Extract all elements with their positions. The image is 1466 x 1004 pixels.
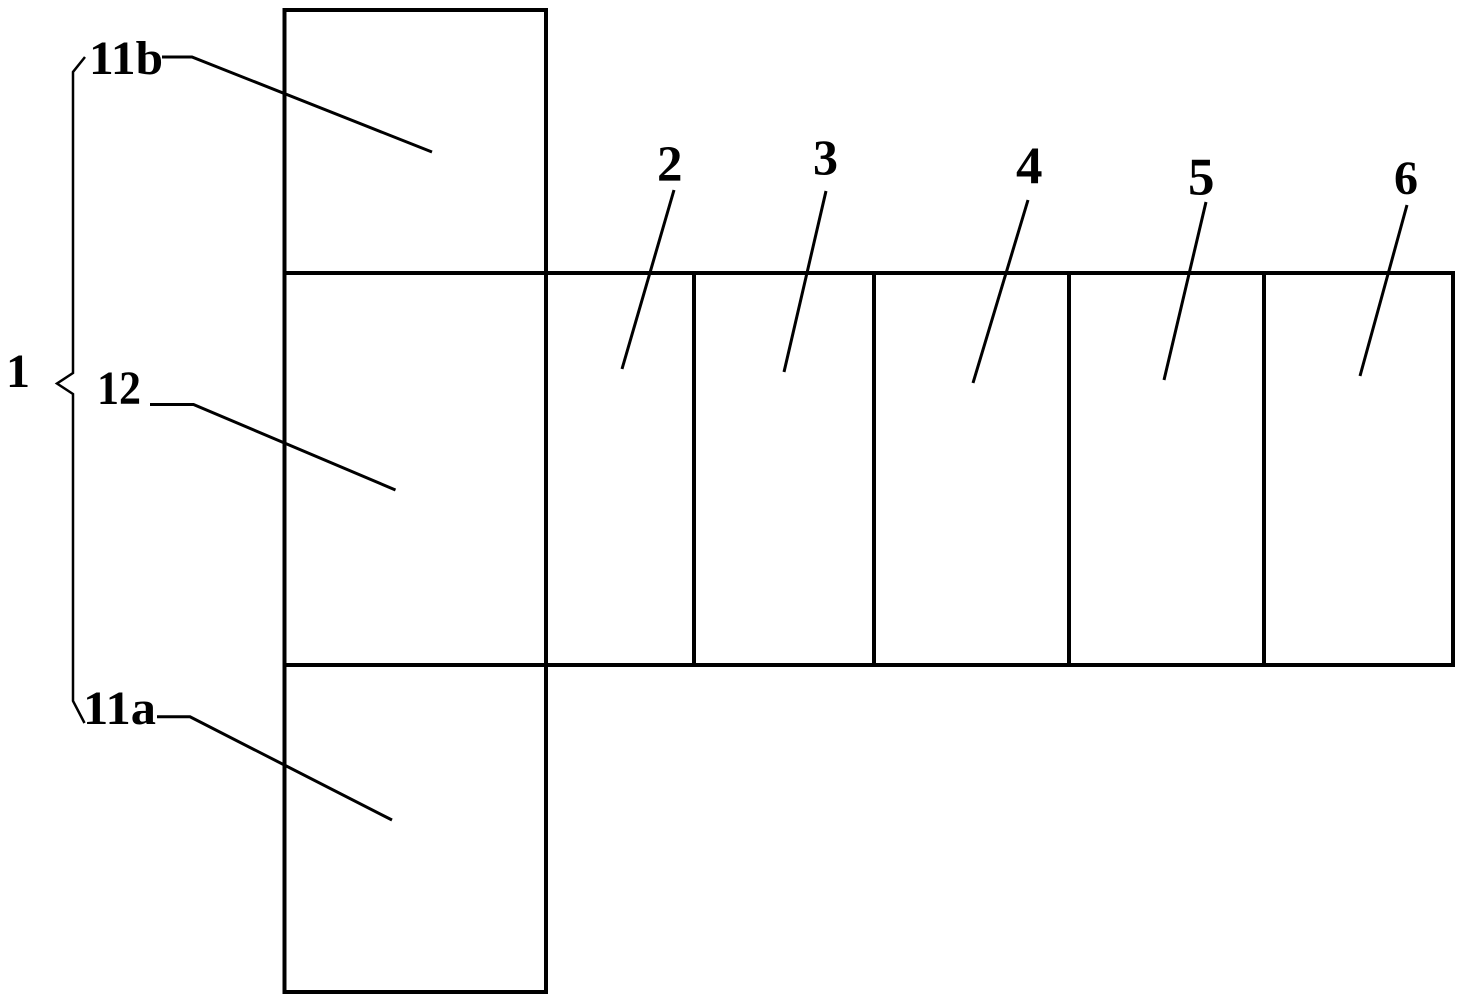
svg-text:1: 1 (6, 345, 30, 398)
svg-text:11a: 11a (83, 682, 156, 735)
leader line 2 (622, 190, 674, 369)
svg-text:12: 12 (97, 362, 141, 415)
fold line top of panel 12 / top of row (283, 271, 1455, 275)
svg-text:6: 6 (1394, 152, 1418, 205)
svg-text:2: 2 (657, 137, 683, 193)
leader line 11b (162, 57, 432, 152)
leader line 11a (157, 717, 392, 820)
leader line 4 (973, 200, 1028, 383)
divider panel 4/5 (1067, 273, 1071, 665)
svg-text:5: 5 (1188, 149, 1215, 207)
right edge of panel 6 (1451, 271, 1455, 667)
leader line 3 (784, 191, 826, 372)
leader line 6 (1360, 205, 1407, 376)
fold line bottom of panel 12 / bottom of row (283, 663, 1455, 667)
divider panel 3/4 (872, 273, 876, 665)
leader line 12 (150, 405, 396, 491)
svg-text:11b: 11b (89, 32, 163, 85)
brace for label 1 (57, 57, 85, 723)
svg-text:4: 4 (1016, 138, 1043, 196)
panel column outline (flaps 11a/11b and panel 12) (285, 10, 547, 992)
svg-text:3: 3 (813, 129, 838, 185)
leader line 5 (1164, 202, 1206, 380)
divider panel 5/6 (1262, 273, 1266, 665)
divider panel 2/3 (692, 273, 696, 665)
